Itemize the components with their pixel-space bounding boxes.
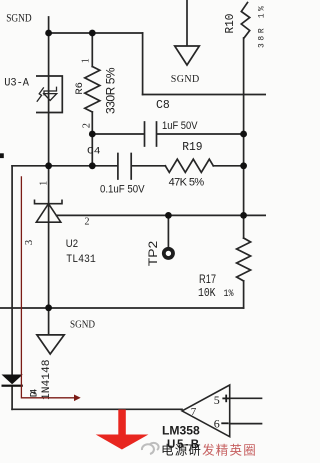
node: junction top wire / left vertical bbox=[45, 30, 52, 37]
plus input marker bbox=[222, 395, 230, 403]
svg-text:SGND: SGND bbox=[70, 320, 95, 331]
capacitor C8 plates bbox=[144, 122, 146, 146]
svg-text:7: 7 bbox=[191, 406, 197, 418]
node: junction top wire / R6 bbox=[89, 30, 96, 37]
optocoupler U3-A photodiode bbox=[37, 87, 57, 102]
svg-text:1: 1 bbox=[81, 58, 92, 63]
annotation: big red down arrow bbox=[96, 410, 149, 450]
wire: R6 bottom lead bbox=[91, 112, 93, 134]
svg-text:R19: R19 bbox=[182, 140, 202, 154]
svg-text:47K 5%: 47K 5% bbox=[169, 177, 205, 189]
wire: R19 to right vertical bbox=[213, 165, 243, 167]
watermark logo bbox=[142, 443, 159, 454]
wire: C8 row horizontal right part bbox=[157, 133, 244, 135]
svg-text:6: 6 bbox=[214, 417, 220, 431]
wire: top horizontal bbox=[49, 32, 143, 34]
test point TP2 bbox=[164, 249, 173, 258]
op-amp U5-B (LM358) bbox=[182, 385, 230, 437]
resistor R17 zigzag bbox=[237, 238, 251, 281]
wire: vertical drop from top wire bbox=[142, 33, 144, 95]
node: junction ground bus / left vertical bbox=[45, 304, 52, 311]
node: junction C4 row / R6 branch bbox=[89, 162, 96, 169]
wire: right vertical net (R10 to R17) bbox=[243, 38, 245, 238]
svg-text:0.1uF 50V: 0.1uF 50V bbox=[100, 184, 145, 196]
svg-text:电源研发精英圈: 电源研发精英圈 bbox=[161, 443, 257, 458]
power symbol SGND (upper middle) bbox=[175, 0, 200, 65]
wire: U2 reference horizontal to right edge bbox=[57, 214, 267, 216]
node: junction R19 / right vertical bbox=[240, 162, 247, 169]
svg-text:TP2: TP2 bbox=[146, 240, 160, 266]
wire: TP2 stub bbox=[167, 215, 169, 248]
node: junction C4 row / left vertical bbox=[45, 162, 52, 169]
svg-text:10K: 10K bbox=[198, 287, 216, 300]
wire: C4 to R19 bbox=[132, 165, 166, 167]
svg-text:330R 5%: 330R 5% bbox=[104, 67, 118, 114]
annotation: thin red path with arrow bbox=[21, 176, 74, 397]
diode D4 (1N4148) bbox=[2, 375, 23, 387]
shunt regulator U2 (TL431) bbox=[35, 200, 63, 223]
resistor R19 zigzag bbox=[165, 159, 213, 172]
svg-text:2: 2 bbox=[85, 217, 90, 228]
svg-text:C8: C8 bbox=[156, 99, 170, 112]
minus input marker bbox=[221, 422, 228, 424]
svg-text:1%: 1% bbox=[224, 288, 235, 300]
wire: bottom horizontal to op-amp output bbox=[12, 408, 182, 410]
wire: op-amp -input bbox=[230, 423, 262, 425]
optocoupler U3-A box bbox=[36, 76, 62, 113]
resistor R10 zigzag bbox=[241, 3, 249, 39]
wire: main left-center vertical net bbox=[48, 17, 50, 334]
svg-text:1uF 50V: 1uF 50V bbox=[162, 120, 198, 132]
resistor R6 zigzag bbox=[85, 67, 100, 113]
svg-text:SGND: SGND bbox=[6, 10, 32, 24]
svg-text:2: 2 bbox=[82, 123, 93, 128]
svg-text:U3-A: U3-A bbox=[4, 77, 29, 89]
svg-text:D4: D4 bbox=[30, 389, 41, 398]
wire: C4/R19 row horizontal bbox=[12, 165, 117, 167]
wire: C8 row horizontal left part bbox=[92, 133, 144, 135]
wire: horizontal to right edge crossing R10 net bbox=[143, 94, 266, 96]
power symbol SGND (bottom) bbox=[37, 335, 64, 354]
wire: far-left vertical (to D4) bbox=[11, 166, 13, 375]
svg-text:1: 1 bbox=[39, 181, 50, 186]
svg-text:R17: R17 bbox=[199, 274, 216, 286]
svg-text:LM358: LM358 bbox=[162, 423, 200, 437]
capacitor C4 plates bbox=[117, 154, 119, 180]
svg-text:R10: R10 bbox=[223, 14, 237, 34]
svg-text:5: 5 bbox=[214, 393, 220, 407]
wire: between C8 row and C4 row bbox=[91, 134, 93, 166]
svg-text:3: 3 bbox=[24, 240, 35, 245]
wire: op-amp +input bbox=[230, 397, 262, 399]
wire: D4 cathode to corner bbox=[11, 386, 13, 409]
svg-text:SGND: SGND bbox=[171, 74, 199, 85]
node: junction R6 bottom / C8 row bbox=[89, 131, 96, 138]
wire: R17 bottom lead to corner bbox=[243, 281, 245, 308]
wire: R6 top lead bbox=[91, 33, 93, 67]
node: junction ref wire / TP2 stub bbox=[165, 212, 172, 219]
svg-text:C4: C4 bbox=[87, 146, 101, 158]
node: junction C8 row / right vertical bbox=[240, 131, 247, 138]
svg-text:U2: U2 bbox=[66, 238, 78, 250]
svg-text:1N4148: 1N4148 bbox=[41, 359, 53, 400]
node: junction ref wire / right vertical bbox=[240, 212, 247, 219]
svg-text:R6: R6 bbox=[74, 82, 86, 95]
wire: bottom ground bus bbox=[0, 307, 244, 309]
svg-text:TL431: TL431 bbox=[66, 254, 96, 266]
decorative edge tick (cut-off bullet) bbox=[0, 153, 4, 158]
